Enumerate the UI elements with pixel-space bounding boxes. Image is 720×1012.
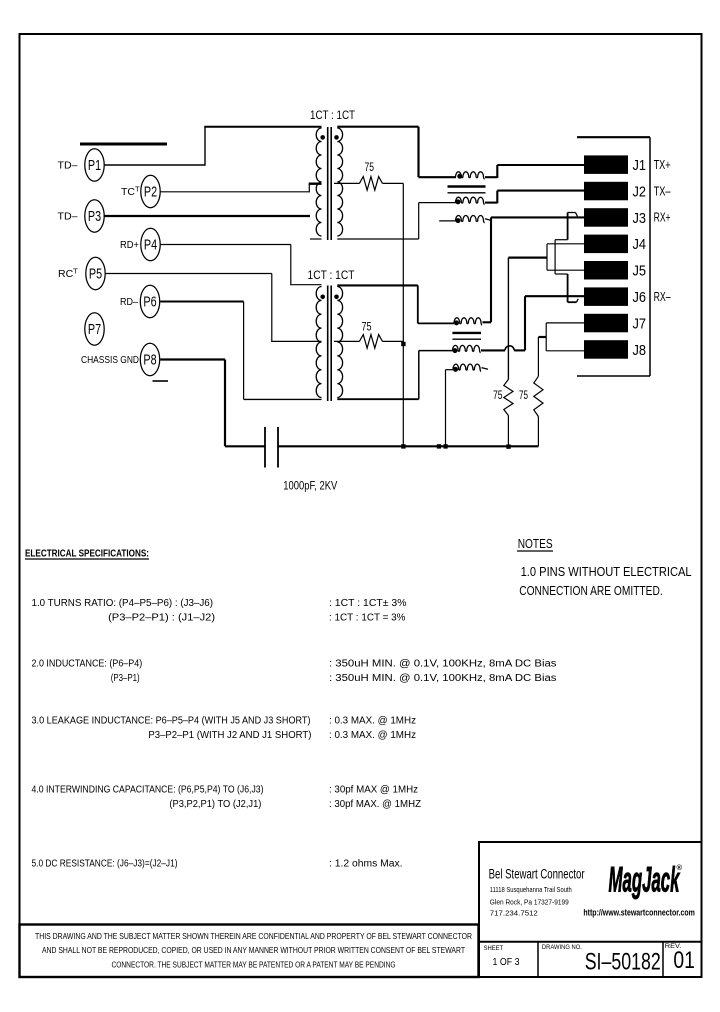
svg-text:P5: P5 (89, 267, 102, 283)
svg-text:: 1CT : 1CT = 3%: : 1CT : 1CT = 3% (329, 613, 406, 624)
pin P3 (85, 200, 104, 232)
svg-text:75: 75 (519, 388, 528, 402)
svg-text:P8: P8 (143, 353, 156, 369)
svg-text:: 0.3 MAX. @ 1MHz: : 0.3 MAX. @ 1MHz (329, 730, 416, 741)
svg-text:J8: J8 (633, 342, 647, 359)
wire P3 stub (104, 215, 310, 217)
svg-text:J1: J1 (633, 157, 647, 174)
svg-text:11118 Susquehanna Trail South: 11118 Susquehanna Trail South (490, 885, 572, 894)
disclaimer box (20, 925, 479, 978)
svg-text:: 30pf MAX. @ 1MHZ: : 30pf MAX. @ 1MHZ (329, 799, 421, 810)
choke CH1 top phase dot (457, 174, 462, 179)
wire T1 primary bottom stub (310, 238, 322, 240)
choke CH1 core (448, 185, 486, 188)
transformer T1 secondary winding (337, 128, 342, 236)
choke CH2 third phase dot (453, 367, 458, 372)
svg-text:P3–P2–P1 (WITH J2 AND J1 SHORT: P3–P2–P1 (WITH J2 AND J1 SHORT) (148, 730, 311, 741)
wire junction to R3 top (508, 257, 547, 259)
svg-text:(P3,P2,P1) TO (J2,J1): (P3,P2,P1) TO (J2,J1) (169, 799, 261, 810)
choke CH2 top phase dot (454, 320, 459, 325)
connector pin J3 (584, 208, 628, 227)
pin P7 (85, 313, 104, 345)
svg-text:1CT : 1CT: 1CT : 1CT (308, 268, 356, 282)
choke CH2 third winding tail (482, 368, 489, 370)
artifact line below P8 (153, 380, 169, 382)
title block frame (479, 842, 702, 977)
svg-text:CONNECTION ARE OMITTED.: CONNECTION ARE OMITTED. (519, 583, 663, 598)
resistor R3 (504, 379, 513, 415)
svg-text:P6: P6 (143, 295, 156, 311)
svg-text:5.0 DC RESISTANCE: (J6–J3)=(J: 5.0 DC RESISTANCE: (J6–J3)=(J2–J1) (32, 859, 178, 870)
svg-text:P7: P7 (88, 322, 101, 338)
connector pin J2 (584, 182, 628, 201)
junction dot rail B (437, 444, 441, 448)
svg-text:: 30pf MAX @ 1MHz: : 30pf MAX @ 1MHz (329, 785, 418, 796)
svg-text:P2: P2 (144, 185, 157, 201)
svg-text:THIS DRAWING AND THE SUBJECT M: THIS DRAWING AND THE SUBJECT MATTER SHOW… (35, 931, 472, 941)
svg-text:P3: P3 (88, 209, 101, 225)
svg-text:TD–: TD– (58, 159, 78, 171)
choke CH1 bottom phase dot (456, 199, 461, 204)
connector pin J4 (584, 235, 628, 254)
pin P4 (141, 228, 160, 260)
svg-text:1 OF 3: 1 OF 3 (493, 957, 520, 968)
connector pin J8 (584, 340, 628, 359)
transformer T1 primary winding (316, 128, 321, 236)
svg-text:Glen Rock, Pa 17327-9199: Glen Rock, Pa 17327-9199 (490, 898, 569, 907)
svg-text:TD–: TD– (58, 210, 78, 222)
artifact line above P1 (80, 143, 167, 146)
wire CH2 top to J3 (483, 321, 492, 323)
choke CH1 third phase dot (456, 218, 461, 223)
svg-text:75: 75 (362, 320, 372, 334)
wire termination node vertical (402, 183, 404, 446)
wire T2 secondary top to choke CH2 (337, 284, 418, 286)
svg-text:717.234.7512: 717.234.7512 (490, 909, 538, 918)
junction dot rail A (401, 444, 405, 448)
wire CH1 bottom to J2 (485, 202, 497, 204)
resistor R2 (334, 340, 359, 342)
svg-text:: 1.2 ohms Max.: : 1.2 ohms Max. (329, 859, 403, 870)
wire J4-J5 junction box (546, 244, 548, 270)
svg-text:DRAWING NO.: DRAWING NO. (542, 944, 582, 951)
wire RX jog (567, 213, 569, 240)
wire P4 to T2 primary top (160, 244, 291, 246)
svg-text:1.0 PINS WITHOUT ELECTRICAL: 1.0 PINS WITHOUT ELECTRICAL (521, 564, 692, 579)
transformer T1 secondary phase dot (334, 135, 339, 140)
svg-text:(P3–P1): (P3–P1) (111, 673, 140, 684)
svg-text:RX+: RX+ (654, 211, 671, 225)
svg-text:P4: P4 (144, 238, 157, 254)
wire P2 to T1 primary center tap (160, 191, 309, 193)
svg-text:RD–: RD– (120, 296, 138, 308)
svg-text:1.0 TURNS RATIO: (P4–P5–P6) :: 1.0 TURNS RATIO: (P4–P5–P6) : (J3–J6) (32, 598, 214, 609)
svg-text:: 350uH MIN. @ 0.1V, 100KHz, 8: : 350uH MIN. @ 0.1V, 100KHz, 8mA DC Bias (329, 659, 557, 670)
choke CH2 middle winding (453, 345, 481, 352)
svg-text:NOTES: NOTES (518, 536, 553, 551)
choke CH1 bottom winding (456, 197, 485, 204)
wire P6 to T2 primary bottom (160, 300, 243, 302)
connector pin J5 (584, 261, 628, 280)
svg-text:75: 75 (365, 160, 375, 174)
svg-text:RX–: RX– (654, 290, 671, 304)
svg-text:: 0.3 MAX. @ 1MHz: : 0.3 MAX. @ 1MHz (329, 716, 416, 727)
svg-text:: 1CT : 1CT± 3%: : 1CT : 1CT± 3% (329, 598, 407, 609)
svg-text:MagJack: MagJack (609, 861, 681, 900)
svg-text:TCT: TCT (121, 185, 140, 199)
connector pin J7 (584, 314, 628, 333)
transformer T2 secondary winding (337, 287, 342, 398)
svg-text:01: 01 (673, 947, 695, 974)
transformer T2 primary winding (316, 287, 321, 398)
wire P8 to ground rail (160, 358, 225, 360)
svg-text:1CT : 1CT: 1CT : 1CT (310, 108, 356, 122)
junction dot R2 out (401, 342, 405, 346)
svg-text:AND SHALL NOT BE REPRODUCED, C: AND SHALL NOT BE REPRODUCED, COPIED, OR … (42, 945, 465, 955)
choke CH2 middle phase dot (453, 348, 458, 353)
svg-text:SI–50182: SI–50182 (585, 949, 661, 976)
wire T2 secondary bottom to choke CH2 (337, 398, 419, 400)
resistor R1 (334, 182, 359, 184)
svg-text:2.0 INDUCTANCE: (P6–P4): 2.0 INDUCTANCE: (P6–P4) (32, 659, 143, 670)
svg-text:®: ® (677, 863, 683, 872)
connector pin J1 (584, 155, 628, 174)
svg-text:SHEET: SHEET (484, 945, 504, 952)
choke CH1 third winding (456, 216, 485, 223)
transformer T1 core (327, 127, 329, 240)
junction dot rail D (506, 444, 510, 448)
choke CH1 third winding input stub (439, 220, 456, 222)
svg-text:RD+: RD+ (120, 239, 139, 251)
svg-text:1000pF, 2KV: 1000pF, 2KV (283, 481, 337, 493)
wire T1 secondary top to choke CH1 (337, 126, 418, 128)
svg-text:CONNECTOR. THE SUBJECT MATTER: CONNECTOR. THE SUBJECT MATTER MAY BE PAT… (112, 960, 396, 970)
resistor R4 (534, 376, 543, 416)
wire T1 secondary bottom to choke CH1 (337, 238, 418, 240)
wire CH2 middle to J6 with hop (481, 349, 505, 351)
svg-text:J2: J2 (633, 183, 647, 200)
choke CH2 core (452, 332, 481, 334)
pin P5 (86, 257, 105, 289)
svg-text:CHASSIS GND: CHASSIS GND (81, 354, 139, 366)
choke CH2 top winding (454, 318, 482, 325)
wire CH1 top to J1 (485, 176, 497, 178)
transformer T2 secondary phase dot (334, 295, 339, 300)
svg-text:: 350uH MIN. @ 0.1V, 100KHz, 8: : 350uH MIN. @ 0.1V, 100KHz, 8mA DC Bias (329, 673, 557, 684)
svg-text:TX–: TX– (654, 184, 671, 198)
svg-text:75: 75 (493, 388, 503, 402)
choke CH2 third winding input (446, 369, 454, 371)
svg-text:3.0 LEAKAGE INDUCTANCE: P6–P: 3.0 LEAKAGE INDUCTANCE: P6–P5–P4 (WITH J… (32, 716, 311, 727)
connector pin J6 (584, 287, 628, 306)
transformer T2 primary phase dot (320, 295, 325, 300)
choke CH1 top winding (456, 172, 485, 179)
svg-text:http://www.stewartconnector.co: http://www.stewartconnector.com (583, 908, 695, 918)
svg-text:(P3–P2–P1) : (J1–J2): (P3–P2–P1) : (J1–J2) (108, 613, 215, 624)
pin P2 (141, 175, 160, 207)
ground rail wire (278, 445, 538, 447)
transformer T2 core (327, 286, 329, 402)
svg-text:J3: J3 (633, 210, 647, 227)
wire R4 top to J7-J8 junction (537, 337, 539, 376)
svg-text:Bel Stewart Connector: Bel Stewart Connector (489, 867, 585, 882)
svg-text:J7: J7 (633, 315, 647, 332)
svg-text:RCT: RCT (58, 267, 78, 281)
connector body bracket (577, 136, 650, 138)
pin P8 (140, 343, 159, 375)
wire RX jog bottom hook (568, 301, 577, 303)
svg-text:P1: P1 (88, 158, 101, 174)
svg-text:J5: J5 (633, 263, 647, 280)
wire J7-J8 junction (545, 323, 547, 351)
transformer T1 primary phase dot (320, 135, 325, 140)
junction dot rail C (444, 444, 448, 448)
pin P6 (140, 285, 159, 317)
svg-text:J6: J6 (633, 289, 647, 306)
choke CH1 third winding tail (485, 219, 491, 220)
wire RX jog top hook (568, 212, 576, 214)
svg-text:J4: J4 (633, 236, 647, 253)
wire P5 to T2 primary center tap (105, 273, 272, 275)
capacitor C1 plates (264, 427, 266, 468)
svg-text:ELECTRICAL SPECIFICATIONS:: ELECTRICAL SPECIFICATIONS: (25, 549, 149, 560)
pin P1 (85, 149, 104, 181)
wire P1 to T1 primary top (104, 164, 205, 166)
svg-text:4.0 INTERWINDING CAPACITANCE:: 4.0 INTERWINDING CAPACITANCE: (P6,P5,P4)… (32, 785, 264, 796)
svg-text:TX+: TX+ (654, 158, 671, 172)
choke CH2 third winding (453, 364, 481, 371)
